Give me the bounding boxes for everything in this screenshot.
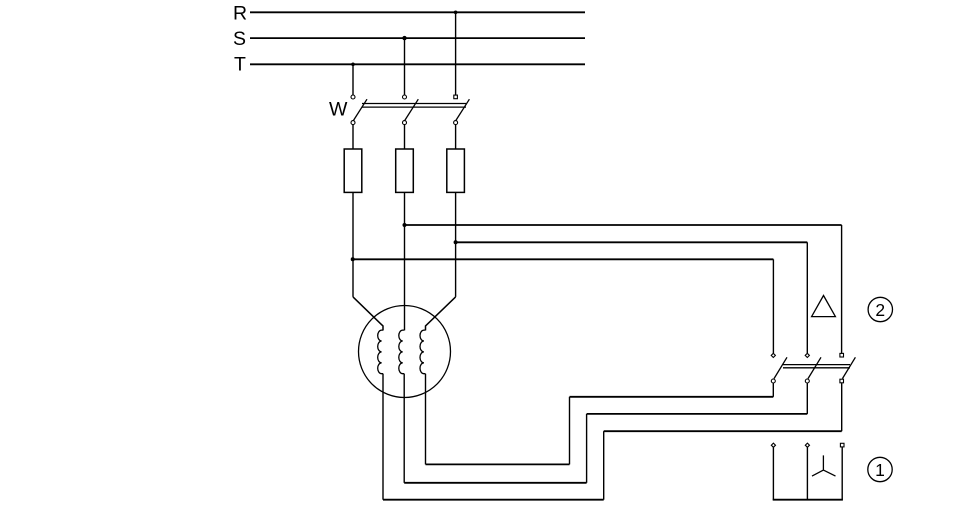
wire switch pole 1 to resistor 1 — [352, 125, 354, 149]
wire bus V1 drop to contactor2 pole 2 — [806, 242, 808, 353]
switch W pole 3 lower terminal — [454, 121, 458, 125]
wire bus W1 horizontal — [353, 258, 774, 260]
contactor 2 pole 2 lower terminal — [805, 379, 809, 383]
wire resistor 2 down to motor — [404, 192, 406, 330]
resistor 1 — [344, 149, 362, 192]
delta symbol — [812, 296, 836, 317]
wire bus U1 horizontal — [405, 224, 842, 226]
contactor 1 pole 3 wire — [841, 447, 843, 500]
wire to contactor2 pole 2 lower terminal — [806, 383, 808, 414]
wire winding W2 vertical drop — [382, 374, 384, 500]
wire resistor 1 down to branch — [352, 192, 354, 297]
contactor 1 pole 2 terminal — [805, 443, 809, 447]
svg-text:1: 1 — [875, 460, 885, 480]
contactor 2 pole 3 blade — [842, 357, 855, 378]
wire winding V2 riser — [586, 414, 588, 483]
contactor 2 pole 3 upper terminal — [840, 353, 844, 357]
contactor 2 coupling bar upper line — [783, 364, 850, 366]
resistor 2 — [396, 149, 414, 192]
wire winding U2 upper run to contactor2 pole 1 — [570, 396, 774, 398]
motor M1 body — [359, 306, 451, 398]
motor winding coil 3 — [420, 330, 426, 374]
wire tap from T to switch pole 1 — [352, 64, 354, 94]
wire winding V2 vertical drop — [403, 374, 405, 483]
contactor 2 pole 1 blade — [774, 357, 787, 378]
contactor 2 pole 2 blade — [808, 357, 821, 378]
svg-text:T: T — [234, 54, 246, 76]
svg-text:W: W — [329, 99, 348, 121]
contactor 2 pole 1 lower terminal — [771, 379, 775, 383]
switch W pole 2 lower terminal — [403, 121, 407, 125]
junction on wire at W1 — [351, 257, 355, 261]
wire bus U1 drop to contactor2 pole 3 — [841, 225, 843, 353]
wire switch pole 2 to resistor 2 — [404, 125, 406, 149]
wire winding W2 horizontal run — [383, 499, 604, 501]
contactor 1 pole 2 wire — [806, 447, 808, 499]
switch W pole 1 lower terminal — [351, 121, 355, 125]
switch W pole 3 upper terminal — [454, 95, 458, 99]
label circle 1 — [868, 457, 892, 481]
contactor 1 pole 1 terminal — [771, 443, 775, 447]
wire winding V2 horizontal run — [404, 482, 586, 484]
switch W pole 1 blade — [354, 99, 368, 120]
wire tap from R to switch pole 3 — [455, 12, 457, 95]
junction on wire at V1 — [454, 240, 458, 244]
contactor 1 pole 1 wire — [772, 447, 774, 499]
svg-text:2: 2 — [875, 300, 885, 320]
switch W pole 3 blade — [456, 99, 470, 120]
junction on wire at U1 — [403, 223, 407, 227]
switch W pole 2 blade — [405, 99, 419, 120]
junction on R — [454, 11, 458, 15]
motor winding coil 1 — [378, 330, 384, 374]
wire diagonal into motor right — [426, 297, 456, 331]
contactor 2 pole 2 upper terminal — [805, 353, 809, 357]
svg-text:R: R — [233, 3, 247, 25]
resistor 3 — [447, 149, 465, 192]
wire diagonal into motor left — [353, 297, 383, 331]
contactor 2 pole 3 lower terminal — [840, 379, 844, 383]
wire winding W2 riser — [603, 431, 605, 500]
junction on S — [402, 36, 406, 40]
contactor 2 coupling bar lower line — [783, 367, 850, 369]
star symbol — [812, 455, 836, 476]
svg-text:S: S — [233, 28, 246, 50]
wire to contactor2 pole 1 lower terminal — [772, 383, 774, 397]
contactor 1 star-point bar — [773, 499, 843, 501]
wire switch pole 3 to resistor 3 — [455, 125, 457, 149]
contactor 2 pole 1 upper terminal — [771, 353, 775, 357]
wire winding U2 vertical drop — [425, 374, 427, 465]
wire phase T bus — [250, 63, 585, 65]
switch W coupling bar lower line — [362, 106, 466, 108]
label circle 2 — [868, 297, 892, 321]
contactor 1 pole 3 terminal — [840, 443, 844, 447]
junction on T — [351, 63, 355, 67]
switch W pole 2 upper terminal — [403, 95, 407, 99]
motor winding coil 2 — [399, 330, 405, 374]
wire phase S bus — [250, 37, 585, 39]
wire bus W1 drop to contactor2 pole 1 — [772, 259, 774, 353]
wire tap from S to switch pole 2 — [404, 38, 406, 95]
wire winding V2 upper run to contactor2 pole 2 — [587, 413, 808, 415]
switch W pole 1 upper terminal — [351, 95, 355, 99]
wire phase R bus — [250, 11, 585, 13]
wire winding W2 upper run to contactor2 pole 3 — [604, 430, 842, 432]
wire resistor 3 down to branch — [455, 192, 457, 297]
wire to contactor2 pole 3 lower terminal — [841, 383, 843, 431]
wire bus V1 horizontal — [456, 241, 808, 243]
switch W coupling bar upper line — [362, 103, 466, 105]
wire winding U2 riser — [569, 397, 571, 465]
wire winding U2 horizontal run — [426, 463, 570, 465]
